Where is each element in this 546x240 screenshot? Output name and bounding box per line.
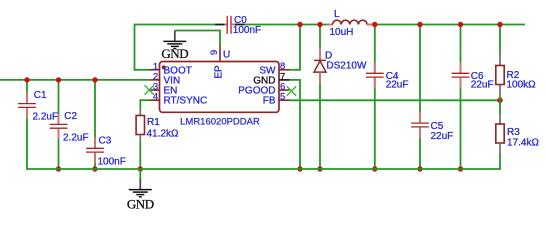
capacitor C1 (18, 79, 58, 170)
pin 1 marker dot (162, 65, 166, 69)
diode D DS210W (314, 24, 367, 169)
pin 2 VIN (150, 71, 181, 86)
C0 left lead (215, 24, 224, 26)
junction SW/top rail (297, 22, 302, 27)
wire EP/GND branch (175, 30, 220, 48)
svg-text:4: 4 (153, 92, 158, 103)
junction C3/VIN rail (92, 77, 97, 82)
svg-text:5: 5 (280, 92, 285, 103)
svg-text:GND: GND (161, 46, 188, 61)
junction FB/R2/R3 (497, 98, 502, 103)
junction R1/bottom rail (138, 166, 143, 171)
junction C5/bottom rail (417, 166, 422, 171)
svg-text:22uF: 22uF (471, 80, 494, 91)
junction C4/bottom rail (372, 166, 377, 171)
wire VIN rail (0, 79, 150, 81)
op-amp U1: IC U LMR16020PDDAR body (160, 50, 280, 128)
svg-text:C3: C3 (99, 136, 112, 147)
junction D/bottom rail (317, 166, 322, 171)
svg-text:100kΩ: 100kΩ (507, 80, 537, 91)
pin 4 RT/SYNC (150, 92, 208, 107)
svg-text:2.2uF: 2.2uF (63, 133, 89, 144)
junction C1/VIN rail (24, 77, 29, 82)
pin 8 SW (259, 61, 289, 76)
wire bottom rail (ground net) (27, 168, 500, 170)
capacitor C2 (50, 79, 89, 169)
pin 7 GND (253, 71, 289, 86)
pin 6 PGOOD (no connect) (238, 81, 296, 96)
svg-text:RT/SYNC: RT/SYNC (164, 96, 208, 107)
svg-text:R3: R3 (507, 127, 520, 138)
svg-text:LMR16020PDDAR: LMR16020PDDAR (180, 117, 260, 128)
svg-text:17.4kΩ: 17.4kΩ (507, 138, 539, 149)
ground GND (bottom) (127, 179, 154, 212)
svg-text:C2: C2 (64, 111, 77, 122)
junction C4/top rail (372, 22, 377, 27)
svg-text:EP: EP (213, 65, 224, 79)
resistor R3 (496, 100, 540, 170)
capacitor C5 (411, 24, 453, 169)
wire R1 bottom (139, 143, 141, 170)
wire top rail right segment (VOUT) (373, 24, 526, 26)
junction C2/bottom rail (56, 166, 61, 171)
svg-text:C1: C1 (34, 90, 47, 101)
wire FB net (290, 99, 501, 101)
svg-text:100nF: 100nF (233, 25, 261, 36)
capacitor C0 (215, 15, 261, 36)
svg-text:GND: GND (127, 197, 154, 212)
svg-text:L: L (334, 9, 340, 20)
wire SW pin to top rail (290, 24, 301, 71)
junction C5/top rail (417, 22, 422, 27)
pin 9 EP (209, 47, 224, 79)
svg-text:10uH: 10uH (330, 27, 354, 38)
junction C6/top rail (458, 22, 463, 27)
ground GND (top) (161, 31, 188, 61)
wire BOOT net (pin1 to top rail) (135, 24, 150, 71)
capacitor C4 (366, 24, 409, 169)
wire top rail middle segment (SW node) (245, 24, 328, 26)
wire RT/SYNC to R1 (140, 99, 149, 107)
junction GND drop/bottom rail (297, 166, 302, 171)
resistor R1 (136, 108, 179, 143)
svg-text:22uF: 22uF (431, 131, 454, 142)
svg-text:9: 9 (209, 50, 220, 55)
resistor R2 (496, 24, 536, 101)
svg-text:41.2kΩ: 41.2kΩ (147, 129, 179, 140)
C0 right lead (231, 24, 235, 26)
svg-text:100nF: 100nF (98, 157, 126, 168)
wire GND stub below bottom rail (139, 169, 141, 179)
junction C6/bottom rail (458, 166, 463, 171)
capacitor C6 (452, 24, 494, 169)
wire top rail left segment (135, 24, 216, 26)
pin 5 FB (263, 92, 290, 107)
svg-text:22uF: 22uF (386, 80, 409, 91)
no-connect X on PGOOD (287, 86, 296, 95)
svg-text:2.2uF: 2.2uF (33, 112, 59, 123)
junction C3/bottom rail (92, 166, 97, 171)
pin 1 BOOT (150, 61, 192, 76)
inductor L 10uH (327, 9, 373, 38)
C0 plates (226, 16, 228, 34)
svg-text:R1: R1 (147, 117, 160, 128)
junction D/top rail (317, 22, 322, 27)
junction R2/top rail (497, 22, 502, 27)
svg-text:U: U (223, 50, 230, 61)
wire GND pin to bottom rail (290, 79, 301, 169)
no-connect X on EN (145, 85, 154, 94)
svg-text:DS210W: DS210W (326, 60, 367, 71)
capacitor C3 (86, 79, 126, 169)
svg-text:FB: FB (263, 96, 276, 107)
pin 3 EN (no connect) (145, 82, 178, 97)
junction C2/VIN rail (56, 77, 61, 82)
